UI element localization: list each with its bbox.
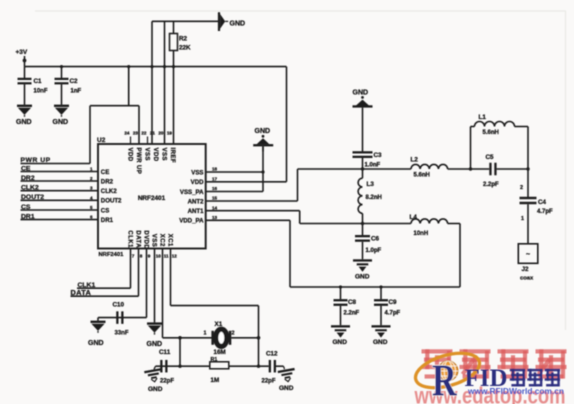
svg-text:GND: GND [355,274,370,281]
svg-text:L2: L2 [411,157,419,164]
svg-text:8: 8 [140,254,143,259]
svg-text:ANT1: ANT1 [188,208,205,215]
svg-text:GND: GND [147,341,163,348]
svg-text:L1: L1 [479,114,487,121]
svg-text:C3: C3 [374,152,383,159]
svg-text:GND: GND [148,386,163,393]
svg-text:R2: R2 [179,36,188,43]
svg-text:1.0pF: 1.0pF [366,248,382,254]
svg-text:C12: C12 [266,350,278,357]
svg-text:1.0nF: 1.0nF [365,162,381,168]
svg-text:1M: 1M [211,377,220,384]
svg-text:VSS: VSS [150,234,157,247]
svg-text:C2: C2 [70,78,79,85]
svg-text:VDD_PA: VDD_PA [179,218,204,225]
svg-text:10nH: 10nH [414,231,429,237]
svg-text:L3: L3 [367,181,375,188]
svg-text:15: 15 [212,196,218,201]
svg-text:C10: C10 [113,302,125,309]
svg-text:24: 24 [124,131,130,136]
svg-text:2: 2 [90,176,93,181]
svg-text:GND: GND [53,119,69,126]
svg-text:2: 2 [232,330,235,336]
svg-text:23: 23 [133,131,139,136]
svg-text:VSS: VSS [191,169,203,176]
svg-text:1nF: 1nF [71,88,82,94]
svg-text:VSS: VSS [143,148,150,161]
svg-text:10nF: 10nF [34,88,48,94]
svg-text:DVDD: DVDD [142,230,149,249]
svg-text:CS: CS [101,207,109,214]
svg-text:3: 3 [90,186,93,191]
svg-text:GND: GND [353,90,369,97]
svg-text:C5: C5 [486,154,495,161]
svg-text:1: 1 [521,216,524,222]
svg-text:2: 2 [520,185,523,191]
svg-text:CLK1: CLK1 [126,230,133,248]
svg-text:4: 4 [90,195,93,200]
svg-text:2.2pF: 2.2pF [483,182,499,188]
svg-text:C11: C11 [159,349,171,356]
svg-text:22pF: 22pF [262,379,276,385]
svg-text:14: 14 [212,205,218,210]
svg-text:CE: CE [101,169,109,176]
svg-text:VDD: VDD [152,148,159,162]
svg-text:22K: 22K [179,45,191,52]
svg-text:19: 19 [167,131,173,136]
svg-text:GND: GND [333,339,348,346]
svg-text:16: 16 [212,186,218,191]
svg-text:NRF2401: NRF2401 [99,252,125,258]
svg-text:X1: X1 [215,321,223,328]
svg-text:NRF2401: NRF2401 [138,195,166,202]
svg-text:5.6nH: 5.6nH [414,172,430,178]
svg-text:PWR UP: PWR UP [135,148,142,175]
svg-text:CLK2: CLK2 [101,188,118,195]
svg-text:13: 13 [212,215,218,220]
svg-text:22: 22 [141,131,147,136]
svg-text:18: 18 [212,167,218,172]
svg-text:DOUT2: DOUT2 [101,198,122,205]
svg-text:~: ~ [526,252,530,259]
svg-text:DATA: DATA [134,230,141,248]
svg-text:7: 7 [132,254,135,259]
svg-text:21: 21 [150,131,156,136]
svg-text:4.7pF: 4.7pF [385,311,401,317]
svg-text:GND: GND [255,128,271,135]
svg-text:GND: GND [230,21,246,28]
svg-text:10: 10 [156,254,162,259]
svg-text:C1: C1 [34,78,43,85]
svg-text:R: R [432,355,458,404]
svg-text:www.RFIDWorld.com.cn: www.RFIDWorld.com.cn [467,386,564,396]
svg-text:+3V: +3V [16,49,28,56]
svg-text:1: 1 [90,167,93,172]
svg-text:5.6nH: 5.6nH [483,130,499,136]
svg-text:GND: GND [88,340,104,347]
svg-text:C4: C4 [538,199,547,206]
svg-text:VSS: VSS [160,148,167,161]
svg-text:J2: J2 [522,266,530,273]
svg-text:VDD: VDD [191,179,204,186]
svg-text:U2: U2 [97,137,106,144]
svg-text:12: 12 [172,254,178,259]
svg-text:GND: GND [373,339,388,346]
svg-text:L4: L4 [410,214,418,221]
svg-text:XC1: XC1 [166,234,173,247]
svg-text:2.2nF: 2.2nF [344,311,360,317]
svg-text:R1: R1 [211,357,218,363]
svg-text:6: 6 [90,215,93,220]
svg-text:DR1: DR1 [101,217,114,224]
svg-text:1: 1 [204,330,207,336]
svg-text:coax: coax [520,275,534,281]
svg-text:9: 9 [148,254,151,259]
svg-text:XC2: XC2 [158,234,165,247]
svg-text:ANT2: ANT2 [188,198,205,205]
svg-text:22pF: 22pF [160,379,174,385]
svg-text:C8: C8 [348,299,357,306]
svg-text:33nF: 33nF [115,331,129,337]
svg-text:GND: GND [16,119,32,126]
svg-text:8.2nH: 8.2nH [366,195,382,201]
svg-text:C6: C6 [371,236,380,243]
svg-text:VSS_PA: VSS_PA [180,189,204,196]
svg-text:DATA: DATA [71,288,92,297]
svg-text:20: 20 [158,131,164,136]
svg-text:DR2: DR2 [101,178,114,185]
svg-text:17: 17 [212,177,218,182]
svg-text:11: 11 [164,254,169,259]
svg-text:16M: 16M [214,349,226,356]
svg-text:C9: C9 [389,299,398,306]
svg-text:GND: GND [279,385,294,392]
svg-text:VDD: VDD [126,148,133,162]
svg-text:5: 5 [90,205,93,210]
svg-text:4.7pF: 4.7pF [537,209,553,215]
svg-text:IREF: IREF [169,148,176,163]
